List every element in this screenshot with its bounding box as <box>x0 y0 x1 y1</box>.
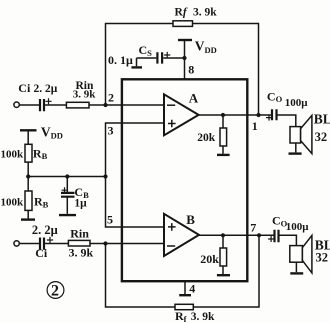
speaker A driver <box>290 127 301 143</box>
svg-text:Rf: Rf <box>175 6 188 18</box>
resistor 20k (channel B) <box>220 248 227 266</box>
svg-text:VDD: VDD <box>195 39 217 55</box>
plus polarity mark CB <box>62 187 68 193</box>
svg-text:3. 9k: 3. 9k <box>191 311 215 323</box>
svg-text:5: 5 <box>107 213 113 227</box>
capacitor CO A plates <box>272 109 277 120</box>
VDD bar top (pin 8) <box>178 39 192 41</box>
svg-text:Rf: Rf <box>175 309 187 323</box>
ground bar CS <box>131 66 142 68</box>
wire pin 8 VDD lead <box>184 41 186 80</box>
wire CS right segment to pin8 lead <box>163 57 184 59</box>
ground bar 20k A <box>217 154 230 156</box>
plus polarity mark CS <box>164 52 170 58</box>
wire 20k B branch <box>222 235 224 274</box>
svg-text:100k: 100k <box>1 148 25 160</box>
wire feedback A: pin2 node up, across top, down to pin1 node <box>106 24 259 116</box>
svg-text:3. 9k: 3. 9k <box>193 6 217 18</box>
wire speaker B ground lead <box>295 262 297 272</box>
svg-text:7: 7 <box>250 221 256 235</box>
junction node input B <box>103 241 107 245</box>
svg-text:4: 4 <box>189 281 195 295</box>
svg-text:BL: BL <box>314 111 330 126</box>
svg-text:2: 2 <box>108 91 114 105</box>
op-amp A plus sign <box>168 120 176 128</box>
capacitor Ci A plates <box>40 99 44 111</box>
junction node divider/bias column <box>103 174 107 178</box>
wire bias: pin3 to divider column down to pin5 <box>106 123 165 227</box>
junction node 20k B <box>221 233 225 237</box>
svg-text:20k: 20k <box>197 132 216 144</box>
speaker B cone <box>302 235 312 273</box>
input terminal B <box>14 241 19 246</box>
capacitor Ci B plates <box>40 238 44 250</box>
ground bar pin 4 <box>179 294 191 296</box>
junction node CB tap <box>65 174 69 178</box>
ground bar RB lower <box>21 218 35 220</box>
junction node CS/pin8 <box>182 56 186 60</box>
svg-text:100μ: 100μ <box>286 221 310 233</box>
svg-text:2. 2μ: 2. 2μ <box>34 83 58 95</box>
ground bar 20k B <box>217 274 230 276</box>
wire speaker A ground lead <box>295 143 297 152</box>
svg-text:B: B <box>186 212 195 227</box>
plus polarity mark Ci A <box>45 98 51 104</box>
resistor Rin (channel B) <box>68 240 90 246</box>
svg-text:CO: CO <box>267 89 283 104</box>
resistor Rf (top feedback) <box>173 21 193 27</box>
junction node feedback A output <box>256 113 260 117</box>
op-amp B <box>164 214 199 256</box>
capacitor CS plates <box>157 52 162 63</box>
wire CB branch upper lead <box>66 177 68 193</box>
svg-text:CS: CS <box>139 43 153 58</box>
svg-text:RB: RB <box>34 195 49 210</box>
wire input A left segment (terminal to Ci) <box>19 104 39 106</box>
svg-text:20k: 20k <box>200 252 219 266</box>
resistor RB upper 100k <box>25 144 32 162</box>
capacitor CB plates (horizontal) <box>61 193 75 197</box>
svg-text:Ci: Ci <box>18 81 31 95</box>
VDD bar left <box>20 129 37 131</box>
IC box <box>122 79 247 281</box>
svg-text:RB: RB <box>33 146 48 161</box>
svg-text:1: 1 <box>252 119 258 133</box>
wire 20k A branch <box>222 115 224 154</box>
wire divider midpoint to bias column <box>28 176 105 178</box>
plus polarity mark Ci B <box>47 237 53 243</box>
ground bar CB <box>59 214 76 216</box>
junction node feedback B output <box>257 233 261 237</box>
wire output A: CO to speaker A <box>278 115 296 127</box>
junction node 20k A <box>221 113 225 117</box>
op-amp B plus sign <box>168 223 176 231</box>
speaker B driver <box>290 246 303 263</box>
wire pin 4 ground lead <box>184 281 186 294</box>
svg-text:3: 3 <box>108 124 114 138</box>
junction node pin2 <box>103 103 107 107</box>
op-amp B minus sign <box>167 245 175 247</box>
svg-text:VDD: VDD <box>41 124 63 140</box>
svg-text:32: 32 <box>315 130 328 144</box>
wire input B left segment (terminal to Ci) <box>19 243 39 245</box>
plus polarity mark CO A <box>266 115 272 121</box>
plus polarity mark CO B <box>268 236 274 242</box>
wire output B: op-amp B to CO <box>199 234 274 236</box>
ground bar speaker A <box>289 152 302 154</box>
svg-text:Ci: Ci <box>35 246 48 260</box>
wire output A: op-amp A to CO <box>199 114 272 116</box>
resistor RB lower 100k <box>25 191 32 210</box>
wire CS left segment to ground <box>137 58 157 66</box>
wire VDD through RB resistors to ground <box>27 130 29 218</box>
wire feedback B: input node down, across bottom, up to pin7 node <box>106 235 260 307</box>
svg-text:2. 2μ: 2. 2μ <box>32 223 58 237</box>
speaker A cone <box>301 115 312 153</box>
junction node divider left <box>26 174 30 178</box>
wire input A right segment (Ci to op-amp A inverting input, pin 2) <box>45 104 164 106</box>
figure number circle 2 <box>47 282 64 299</box>
op-amp A <box>164 94 199 135</box>
svg-text:A: A <box>189 90 199 105</box>
svg-text:3. 9k: 3. 9k <box>73 88 97 100</box>
svg-text:0. 1μ: 0. 1μ <box>108 53 133 67</box>
resistor Rf (bottom feedback) <box>175 304 193 309</box>
svg-text:32: 32 <box>316 251 329 265</box>
svg-text:1μ: 1μ <box>74 198 87 210</box>
svg-text:3. 9k: 3. 9k <box>69 246 94 260</box>
svg-text:Rin: Rin <box>70 227 89 241</box>
wire CB branch lower lead <box>66 197 68 213</box>
input terminal A <box>14 102 19 107</box>
ground bar speaker B <box>290 272 303 274</box>
svg-text:100μ: 100μ <box>285 97 309 109</box>
svg-text:8: 8 <box>188 62 194 76</box>
op-amp A minus sign <box>167 104 175 106</box>
capacitor CO B plates <box>275 230 279 243</box>
wire output B: CO to speaker B <box>280 235 297 245</box>
wire input B right segment (Ci to op-amp B inverting input) <box>45 243 164 245</box>
svg-text:2: 2 <box>51 283 59 300</box>
resistor 20k (channel A) <box>220 128 227 146</box>
svg-text:100k: 100k <box>1 197 25 209</box>
resistor Rin (channel A) <box>66 102 89 108</box>
